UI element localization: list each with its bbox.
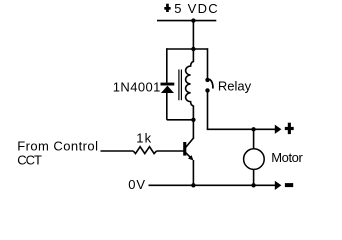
wire +5V top rail — [157, 20, 216, 22]
motor M1 circle — [244, 149, 265, 170]
node +5V rail label — [164, 1, 219, 16]
svg-text:Relay: Relay — [218, 79, 252, 94]
arrowhead motor + output — [275, 125, 282, 134]
transistor Q1 base bar — [183, 142, 186, 156]
junction motor top — [251, 127, 255, 131]
svg-text:0V: 0V — [128, 177, 146, 192]
relay contact fixed terminal dot — [205, 78, 209, 82]
wire lower branch diode to coil — [167, 119, 194, 121]
wire diode bottom lead — [166, 93, 168, 120]
wire motor top lead — [253, 129, 255, 149]
arrowhead motor - output — [275, 181, 282, 190]
minus symbol motor - — [285, 183, 293, 187]
wire motor top rail — [207, 128, 276, 130]
diode D1 anode triangle — [161, 86, 174, 93]
wire 0V bottom rail — [149, 184, 276, 186]
diode D1 1N4001 cathode bar — [161, 83, 175, 86]
junction motor bottom — [251, 183, 255, 187]
junction coil bottom / collector — [191, 118, 195, 122]
plus symbol motor + — [285, 123, 294, 134]
wire base input — [101, 150, 134, 152]
svg-text:5 VDC: 5 VDC — [174, 1, 219, 16]
svg-text:1N4001: 1N4001 — [113, 79, 161, 94]
wire motor bottom lead — [253, 169, 255, 185]
relay coil core line 1 — [178, 70, 180, 101]
relay contact blade — [209, 79, 213, 89]
wire upper branch — [167, 48, 208, 50]
transistor Q1 collector diagonal — [186, 138, 194, 148]
wire resistor to base — [157, 150, 184, 152]
plus symbol of +5 VDC — [164, 4, 170, 12]
wire relay contact bottom lead — [207, 92, 209, 129]
transistor Q1 emitter arrowhead — [188, 155, 193, 160]
relay contact moving terminal dot — [205, 88, 209, 92]
relay coil L1 winding — [186, 49, 194, 120]
svg-text:CCT: CCT — [17, 152, 42, 167]
junction on +5V rail — [191, 18, 195, 22]
wire relay contact top lead — [207, 48, 209, 78]
wire emitter vertical — [192, 160, 194, 185]
wire rail stub down — [192, 21, 194, 49]
wire diode top lead — [166, 48, 168, 82]
wire collector vertical — [192, 119, 194, 138]
transistor Q1 emitter diagonal — [186, 153, 193, 160]
resistor R1 1k zigzag — [133, 147, 156, 154]
svg-text:1k: 1k — [136, 130, 152, 145]
junction emitter to 0V — [191, 183, 195, 187]
svg-text:Motor: Motor — [271, 150, 303, 165]
relay coil core line 2 — [180, 70, 182, 101]
junction upper branch — [191, 47, 195, 51]
